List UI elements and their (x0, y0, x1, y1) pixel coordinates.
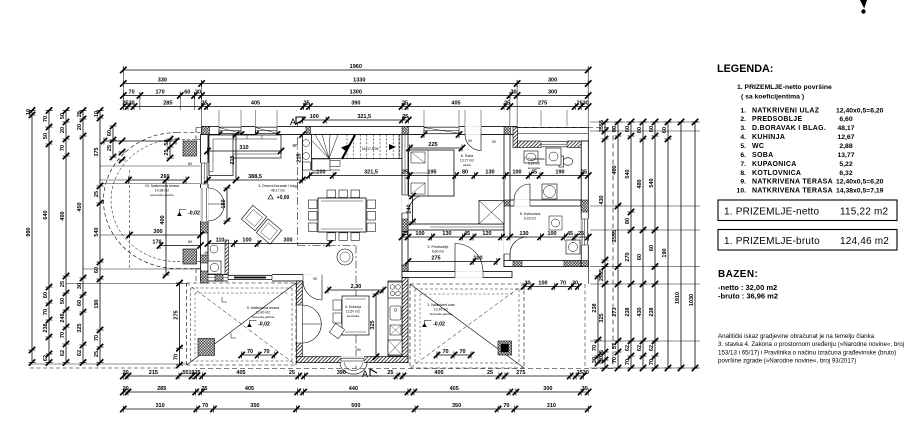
svg-text:25: 25 (94, 191, 100, 197)
svg-text:13,77 m2: 13,77 m2 (460, 159, 474, 163)
armchair 2 (256, 219, 281, 244)
svg-text:300: 300 (548, 78, 557, 84)
extension lines top (122, 66, 124, 110)
dim col right-4 (642, 122, 644, 368)
pier kotl bottom 1 (513, 261, 522, 267)
wall kitchen bottom (296, 357, 408, 363)
svg-text:190: 190 (555, 170, 564, 176)
svg-text:LEGENDA:: LEGENDA: (717, 63, 773, 75)
pier rightwing mid (402, 219, 408, 232)
svg-text:NATKRIVENA TERASA: NATKRIVENA TERASA (752, 179, 833, 186)
svg-text:350: 350 (452, 403, 461, 409)
svg-text:62: 62 (649, 345, 655, 351)
kitchen small appliance (390, 325, 401, 335)
svg-text:215: 215 (297, 153, 303, 162)
pier top bedroom-bath (504, 127, 511, 135)
boiler (542, 184, 557, 199)
svg-text:90: 90 (468, 139, 472, 143)
svg-text:7. Kupaonica: 7. Kupaonica (524, 157, 545, 161)
terrace 1 mini dim 70-70 (437, 354, 471, 356)
svg-text:1. PRIZEMLJE-bruto: 1. PRIZEMLJE-bruto (724, 236, 820, 247)
wall corridor bottom (402, 272, 512, 278)
terrace 10 col ticks (119, 138, 125, 144)
kitchen counter (388, 281, 402, 356)
svg-text:70: 70 (94, 335, 100, 341)
dim 160 door rot (226, 188, 228, 221)
svg-text:60: 60 (43, 292, 49, 298)
door arc bathroom (514, 184, 530, 200)
svg-text:275: 275 (431, 256, 440, 262)
wall kitchen left (296, 281, 302, 363)
terrace 1 diagonal (410, 284, 524, 368)
svg-text:100: 100 (473, 256, 482, 262)
svg-text:6,60: 6,60 (839, 116, 852, 123)
dim row top-1 (1960) (123, 69, 588, 71)
dashed line to left cols (30, 367, 180, 369)
label living level (268, 195, 273, 199)
win living 2 (256, 126, 278, 135)
terrace 9 diagonal (187, 283, 297, 365)
svg-text:70: 70 (43, 309, 49, 315)
terrace 10 dim 170 (160, 245, 201, 247)
terrace 9 step marks (222, 297, 227, 302)
terrace 10 dim 300 (130, 234, 201, 236)
svg-text:388,5: 388,5 (248, 174, 262, 180)
entrance door opening (455, 271, 483, 278)
svg-text:70: 70 (129, 90, 135, 96)
svg-text:405: 405 (451, 101, 460, 107)
svg-text:KOTLOVNICA: KOTLOVNICA (752, 170, 801, 177)
terrace 9 post (198, 339, 215, 356)
terrace 10 post lower (183, 249, 197, 264)
wall bedroom-bath (504, 135, 510, 267)
svg-text:2,30: 2,30 (351, 284, 362, 290)
terrace 1 dashed outline (410, 283, 524, 285)
svg-text:70: 70 (625, 359, 631, 365)
svg-text:12,40 m2: 12,40 m2 (434, 308, 448, 312)
wall top exterior (202, 127, 517, 135)
svg-text:keramika: keramika (528, 166, 541, 170)
sliding door living-terrace9 (228, 274, 272, 282)
svg-text:parket: parket (463, 163, 472, 167)
svg-text:25: 25 (387, 370, 393, 376)
svg-text:45: 45 (464, 231, 470, 237)
dim col left-5 (99, 111, 101, 363)
svg-text:310: 310 (239, 145, 248, 151)
wall living-rightwing (402, 135, 408, 272)
kitchen table (342, 296, 369, 335)
svg-text:110: 110 (216, 238, 225, 244)
svg-text:1910: 1910 (675, 292, 681, 304)
window extension verticals (218, 110, 220, 126)
svg-text:betonska gazišta: betonska gazišta (252, 315, 275, 319)
svg-text:5,22: 5,22 (839, 161, 852, 168)
interior dim kitchen 230 (328, 289, 383, 291)
svg-text:70: 70 (202, 403, 208, 409)
right mini vdim 238 (597, 276, 599, 363)
svg-text:215: 215 (149, 370, 158, 376)
svg-text:300: 300 (548, 90, 557, 96)
svg-text:170: 170 (152, 240, 161, 246)
svg-text:70: 70 (592, 345, 598, 351)
pier right wall 2 (581, 261, 588, 267)
svg-text:70: 70 (459, 349, 465, 355)
svg-text:25: 25 (303, 101, 309, 107)
washing machine kotlovnica (566, 240, 580, 254)
svg-text:25: 25 (164, 149, 170, 155)
svg-text:50: 50 (43, 133, 49, 139)
svg-text:površine zgrade (»Narodne nov: površine zgrade (»Narodne novine«, broj … (718, 358, 856, 365)
interior dim 310 sofa (208, 150, 282, 152)
svg-text:321,5: 321,5 (364, 170, 378, 176)
svg-text:NATKRIVENA TERASA: NATKRIVENA TERASA (752, 188, 833, 195)
terrace 10 dashed ellipse outer (104, 133, 178, 269)
svg-text:13,77: 13,77 (837, 152, 854, 159)
svg-text:9. Natkrivena terasa: 9. Natkrivena terasa (247, 306, 279, 310)
svg-text:390: 390 (351, 101, 360, 107)
pier top-left corner (202, 127, 210, 135)
terrace 10 dim 400 (165, 180, 167, 275)
dim row bottom-C (123, 408, 588, 410)
win right wall (581, 219, 589, 245)
svg-text:6,32: 6,32 (839, 170, 852, 177)
svg-text:betonska gazišta: betonska gazišta (430, 312, 453, 316)
svg-text:300: 300 (153, 229, 162, 235)
svg-text:Analitički iskaz gradjevine ob: Analitički iskaz gradjevine obračunat je… (718, 333, 875, 340)
dim row bottom-B (123, 391, 588, 393)
svg-text:6,60 m2: 6,60 m2 (432, 250, 444, 254)
svg-text:25: 25 (581, 170, 587, 176)
svg-text:990: 990 (26, 227, 32, 236)
svg-text:480: 480 (637, 179, 643, 188)
svg-text:238: 238 (625, 307, 631, 316)
svg-text:70: 70 (60, 332, 66, 338)
svg-text:2530: 2530 (577, 101, 589, 107)
svg-text:9.: 9. (740, 179, 746, 186)
double door arcs (208, 188, 224, 204)
dining table (318, 198, 366, 232)
svg-text:2555: 2555 (599, 120, 605, 132)
svg-text:KUHINJA: KUHINJA (752, 134, 785, 141)
small fixture kotlovnica (549, 216, 562, 230)
svg-text:430: 430 (599, 195, 605, 204)
svg-text:20: 20 (77, 124, 83, 130)
svg-text:NATKRIVENI ULAZ: NATKRIVENI ULAZ (752, 107, 820, 114)
entrance door arc (455, 244, 483, 272)
section line A-A (297, 122, 299, 246)
svg-text:130: 130 (519, 231, 528, 237)
svg-text:1925: 1925 (188, 370, 200, 376)
stairs (311, 135, 313, 171)
dim row top-2 (330/1330/300) (123, 83, 588, 85)
washing machine wc (208, 261, 221, 274)
svg-text:640: 640 (43, 210, 49, 219)
svg-text:1300: 1300 (350, 90, 362, 96)
door opening kitchen bottom (341, 356, 364, 363)
svg-text:50: 50 (492, 140, 496, 144)
svg-text:( sa koeficijentima ): ( sa koeficijentima ) (741, 94, 804, 101)
interior dim row y237 (402, 236, 588, 238)
door opening bathroom (514, 200, 530, 207)
svg-text:50: 50 (164, 139, 170, 145)
sofa L-shaped (209, 135, 281, 158)
svg-text:90: 90 (313, 277, 317, 281)
svg-text:62: 62 (625, 345, 631, 351)
svg-text:170: 170 (156, 90, 165, 96)
svg-text:310: 310 (547, 403, 556, 409)
wall kitchen right (402, 278, 408, 363)
svg-text:100: 100 (415, 231, 424, 237)
svg-text:16x17,5/28: 16x17,5/28 (362, 147, 379, 151)
svg-text:160: 160 (221, 199, 227, 208)
svg-text:-bruto : 36,96 m2: -bruto : 36,96 m2 (718, 292, 778, 301)
svg-text:60: 60 (77, 300, 83, 306)
interior dim 225 bedroom (410, 147, 463, 149)
svg-text:KUPAONICA: KUPAONICA (752, 161, 797, 168)
svg-text:50: 50 (60, 298, 66, 304)
svg-text:12,40x0,5=6,20: 12,40x0,5=6,20 (836, 107, 884, 114)
extension lines right (590, 121, 700, 123)
svg-text:325: 325 (599, 313, 605, 322)
terrace 10 dashed edges (177, 132, 201, 134)
svg-text:100: 100 (316, 170, 325, 176)
svg-text:30: 30 (572, 281, 578, 287)
svg-text:30: 30 (592, 357, 598, 363)
door opening hall-bedroom (402, 195, 409, 213)
svg-text:62: 62 (60, 350, 66, 356)
svg-text:70: 70 (442, 349, 448, 355)
pier rightwing low (402, 265, 408, 278)
bath sink (524, 151, 538, 163)
svg-text:153/13 i 65/17) i Pravilnika o: 153/13 i 65/17) i Pravilnika o načinu iz… (718, 349, 896, 356)
pier living bottom corner (201, 271, 209, 283)
bed (409, 150, 455, 196)
box prizemlje-bruto (718, 230, 897, 251)
double door arcs kitchen (302, 305, 321, 324)
wall left exterior (201, 135, 209, 275)
svg-text:100: 100 (547, 231, 556, 237)
svg-text:325: 325 (77, 323, 83, 332)
win bedroom (424, 126, 459, 135)
north arrow fragment (860, 0, 867, 9)
pier kotl bottom 2 (564, 261, 581, 267)
svg-text:124,46 m2: 124,46 m2 (840, 236, 889, 247)
svg-text:1030: 1030 (689, 294, 695, 306)
wall bedroom bottom (408, 224, 504, 230)
door arc kotlovnica (510, 237, 527, 254)
svg-text:430: 430 (637, 307, 643, 316)
interior dim 215 rot (302, 135, 304, 181)
svg-text:275: 275 (174, 310, 180, 319)
svg-text:8. Kotlovnica: 8. Kotlovnica (520, 212, 541, 216)
svg-text:6.: 6. (740, 152, 746, 159)
terrace 1 top mini dim (524, 286, 578, 288)
svg-text:100: 100 (310, 114, 319, 120)
wall living bottom (201, 275, 310, 282)
svg-text:195: 195 (427, 170, 436, 176)
svg-text:285: 285 (157, 386, 166, 392)
svg-text:540: 540 (625, 169, 631, 178)
svg-text:1. Natkriveni ulaz: 1. Natkriveni ulaz (427, 303, 455, 307)
dim col left-4 (82, 111, 84, 363)
dim col right-6 (667, 122, 669, 368)
shower (546, 148, 561, 165)
svg-text:238: 238 (592, 303, 598, 312)
svg-text:2. Predsoblje: 2. Predsoblje (428, 245, 449, 249)
svg-text:238: 238 (43, 323, 49, 332)
svg-text:3.: 3. (740, 125, 746, 132)
wall right exterior (581, 141, 588, 267)
armchair 1 (241, 205, 266, 230)
svg-text:48,17: 48,17 (837, 125, 854, 132)
coffee table (337, 249, 353, 265)
svg-text:14,38 m2: 14,38 m2 (155, 189, 169, 193)
svg-text:20: 20 (60, 127, 66, 133)
svg-text:405: 405 (450, 386, 459, 392)
wall wc (225, 240, 229, 275)
svg-text:6. Soba: 6. Soba (461, 154, 473, 158)
svg-text:325: 325 (370, 320, 376, 329)
svg-text:3. stavka 4. Zakona o prostorn: 3. stavka 4. Zakona o prostornom uređenj… (718, 341, 904, 348)
dim col left-3 (65, 111, 67, 363)
interior dim row y174.5 (310, 175, 589, 177)
svg-text:WC: WC (752, 143, 764, 150)
pier top living-bedroom (402, 127, 409, 135)
dim col right-2 (617, 122, 619, 368)
svg-text:80: 80 (292, 143, 298, 148)
wc basin (210, 245, 218, 253)
dim col right-3 (630, 122, 632, 368)
svg-text:-0,02: -0,02 (433, 322, 445, 328)
svg-text:70: 70 (174, 354, 180, 360)
dim row stairs-top (100/321.5) (302, 119, 408, 121)
svg-text:4.: 4. (740, 134, 746, 141)
roof edge above bathroom (517, 127, 588, 129)
pier top stairs-left (306, 127, 311, 135)
svg-text:10: 10 (26, 109, 32, 115)
win bathroom (541, 141, 567, 148)
svg-text:275: 275 (538, 101, 547, 107)
entry step semicircle (340, 363, 367, 374)
interior dim kitchen 325 rot (375, 294, 377, 357)
terrace 10 dim 260 (129, 179, 187, 181)
svg-text:20: 20 (123, 386, 129, 392)
svg-text:190: 190 (662, 248, 668, 257)
svg-text:25: 25 (77, 111, 83, 117)
svg-text:400: 400 (160, 215, 166, 224)
svg-text:25: 25 (402, 170, 408, 176)
win living 1 (219, 126, 241, 135)
svg-text:405: 405 (236, 370, 245, 376)
svg-text:30: 30 (524, 281, 530, 287)
svg-text:70: 70 (60, 145, 66, 151)
svg-text:80: 80 (462, 170, 468, 176)
svg-text:A: A (290, 117, 296, 127)
svg-text:48,17 m2: 48,17 m2 (271, 189, 285, 193)
svg-text:540: 540 (649, 178, 655, 187)
wall bathroom bottom (510, 200, 581, 206)
svg-text:60: 60 (184, 90, 190, 96)
svg-text:60: 60 (637, 254, 643, 260)
svg-text:10: 10 (94, 111, 100, 117)
pier living bottom wc (215, 275, 223, 282)
svg-text:60: 60 (649, 245, 655, 251)
svg-text:25: 25 (578, 231, 584, 237)
svg-text:+0,00: +0,00 (277, 195, 290, 201)
wall kotlovnica bottom (504, 261, 588, 267)
win left wall (200, 163, 208, 184)
dim row top-3 (123, 95, 588, 97)
svg-text:D.BORAVAK I BLAG.: D.BORAVAK I BLAG. (752, 125, 826, 132)
svg-text:238: 238 (649, 307, 655, 316)
svg-text:62: 62 (637, 345, 643, 351)
svg-text:45: 45 (531, 170, 537, 176)
box prizemlje-netto (718, 200, 897, 221)
door opening kitchen left (296, 305, 303, 343)
pier left wall 2 (201, 255, 209, 263)
svg-text:350: 350 (250, 403, 259, 409)
svg-text:SOBA: SOBA (752, 152, 773, 159)
svg-text:1. PRIZEMLJE-netto: 1. PRIZEMLJE-netto (724, 206, 820, 217)
svg-text:60: 60 (94, 267, 100, 273)
svg-text:80: 80 (637, 127, 643, 133)
wall bathroom north hatched (513, 127, 518, 148)
svg-text:215: 215 (230, 155, 236, 164)
svg-text:100: 100 (242, 238, 251, 244)
svg-text:20: 20 (123, 370, 129, 376)
svg-text:50: 50 (60, 113, 66, 119)
svg-text:-0,02: -0,02 (258, 322, 270, 328)
dashed wall line right terrace (584, 284, 586, 368)
svg-text:285: 285 (163, 101, 172, 107)
svg-text:25: 25 (107, 145, 113, 151)
stove (388, 282, 402, 298)
svg-text:5,22 m2: 5,22 m2 (528, 162, 540, 166)
svg-text:PREDSOBLJE: PREDSOBLJE (752, 116, 802, 123)
dim col right-7 (680, 122, 682, 368)
svg-text:62: 62 (43, 355, 49, 361)
svg-text:-0,02: -0,02 (188, 211, 200, 217)
svg-text:310: 310 (156, 403, 165, 409)
svg-text:30: 30 (77, 283, 83, 289)
svg-text:300: 300 (283, 238, 292, 244)
svg-text:60: 60 (107, 130, 113, 136)
svg-text:190: 190 (355, 348, 361, 352)
svg-text:225: 225 (428, 142, 437, 148)
svg-text:30: 30 (510, 90, 516, 96)
pier right wall 1 (581, 200, 588, 212)
interior dim 215 rot b (235, 135, 237, 181)
terrace 9 mini dim 70-70 (242, 354, 275, 356)
svg-text:80: 80 (625, 218, 631, 224)
svg-text:115,22 m2: 115,22 m2 (840, 206, 889, 217)
svg-text:70: 70 (43, 116, 49, 122)
svg-text:300: 300 (543, 386, 552, 392)
svg-text:14,38x0,5=7,19: 14,38x0,5=7,19 (836, 188, 884, 195)
svg-text:240: 240 (407, 204, 413, 213)
terrace 10 top dim (104, 140, 176, 142)
svg-text:70: 70 (503, 403, 509, 409)
svg-text:405: 405 (245, 386, 254, 392)
extension lines left (100, 179, 129, 181)
door opening left wall (double) (200, 188, 208, 221)
wardrobe (479, 201, 504, 225)
svg-text:12,40 m2: 12,40 m2 (256, 311, 270, 315)
svg-text:25: 25 (402, 231, 408, 237)
ext window left (100, 165, 201, 167)
svg-text:70: 70 (560, 281, 566, 287)
dim col right-8 (1030) (694, 122, 696, 368)
